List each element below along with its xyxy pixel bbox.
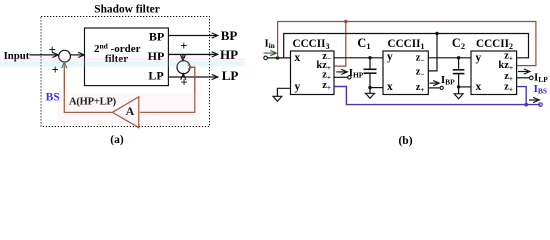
- wire input to summer S1: [30, 54, 57, 56]
- wire z+ U3 to IHP terminal: [334, 76, 348, 78]
- arrowhead BP: [212, 33, 218, 38]
- node BS bus: [524, 103, 528, 107]
- wire LP branch up to summer S2: [182, 76, 184, 78]
- arrowhead S2 output (red): [188, 65, 192, 70]
- wire z- U3 to y U1: [334, 57, 383, 59]
- red feedback rail: [278, 22, 536, 66]
- wire ground node to x U2: [459, 86, 471, 88]
- IBP terminal: [440, 86, 443, 89]
- IBS terminal: [539, 103, 543, 107]
- wire z+ U2 to BS bus (blue): [517, 87, 526, 105]
- wire LP out: [168, 76, 216, 78]
- IBP annotation arrow: [430, 82, 438, 84]
- node red rail junction: [276, 56, 279, 59]
- wire ground node to x U1: [370, 87, 383, 89]
- svg-text:x: x: [476, 81, 482, 93]
- jpeg pink band artifact: [0, 58, 245, 60]
- svg-text:BP: BP: [221, 28, 238, 43]
- svg-text:Shadow filter: Shadow filter: [94, 4, 160, 16]
- arrowhead LP: [212, 74, 218, 79]
- svg-text:x: x: [295, 52, 301, 64]
- CCCII3 box U3: [291, 51, 335, 95]
- wire z- U1 to y U2: [428, 57, 471, 59]
- summer S1: [59, 50, 71, 62]
- ground U3: [273, 96, 282, 101]
- svg-text:BP: BP: [149, 30, 164, 44]
- node on red rail: [344, 20, 347, 23]
- black drop to z- mid of U1 (wire): [428, 34, 437, 71]
- wire y U3 to ground: [277, 88, 290, 96]
- arrowhead into S1 bottom (green tint): [62, 62, 67, 68]
- CCCII2 box U2: [471, 51, 517, 95]
- svg-text:+: +: [49, 43, 56, 57]
- wire z+ U3 to BS bus (blue): [334, 87, 541, 105]
- summer S2: [177, 61, 190, 74]
- wire S1 to filter box: [71, 54, 83, 56]
- svg-text:+: +: [180, 39, 187, 53]
- IBS annotation arrow: [529, 99, 537, 101]
- CCCII1 box U1: [383, 51, 428, 95]
- arrowhead into S2 top: [180, 55, 185, 61]
- ILP annotation arrow: [518, 71, 528, 73]
- wire z+ U1 to IBP terminal: [428, 87, 440, 89]
- node C2 top: [457, 56, 460, 59]
- svg-text:LP: LP: [222, 68, 239, 83]
- wire A output to S1 (red): [64, 65, 112, 113]
- capacitor C1: [369, 58, 371, 70]
- red drop to kz+ of U3 (wire): [334, 22, 346, 67]
- arrowhead HP: [212, 52, 218, 57]
- IHP annotation arrow: [336, 71, 345, 73]
- svg-text:x: x: [387, 81, 393, 93]
- svg-text:CCCII3: CCCII3: [293, 38, 330, 51]
- wire BP out: [168, 35, 216, 37]
- arrowhead into S1: [52, 52, 58, 57]
- svg-text:CCCII1: CCCII1: [388, 38, 425, 51]
- svg-text:BS: BS: [46, 91, 60, 103]
- wire kz+ U2 to ILP terminal: [517, 77, 530, 79]
- node C2 bottom / x U2: [457, 85, 460, 88]
- wire HP branch down to summer S2: [182, 54, 184, 58]
- svg-text:y: y: [387, 51, 393, 63]
- wire HP out: [168, 53, 216, 55]
- svg-text:(a): (a): [110, 134, 124, 146]
- ground C1: [366, 93, 375, 98]
- IHP terminal: [348, 76, 351, 79]
- black feedback rail: [284, 34, 529, 58]
- svg-text:y: y: [476, 52, 482, 64]
- input terminal: [264, 56, 268, 60]
- svg-text:LP: LP: [148, 69, 163, 83]
- svg-text:CCCII2: CCCII2: [476, 38, 513, 51]
- ground C2: [454, 94, 463, 99]
- node C1 top: [368, 56, 371, 59]
- wire S2 output (red): [140, 67, 195, 112]
- capacitor C2: [458, 58, 460, 70]
- node on black rail: [435, 32, 438, 35]
- dashed enclosure: [41, 17, 210, 127]
- filter box U1: [85, 28, 169, 86]
- arrowhead into filter box: [78, 52, 84, 57]
- amplifier A: [112, 97, 138, 128]
- ILP terminal: [530, 76, 534, 80]
- wire input to x of U3: [267, 57, 290, 59]
- svg-text:(b): (b): [398, 135, 412, 147]
- jpeg pink wash around feedback loop: [58, 93, 200, 126]
- arrow Iin annotation: [264, 52, 276, 54]
- jpeg cyan band artifact: [0, 61, 245, 67]
- node C1 bottom / x U1: [368, 86, 371, 89]
- svg-text:y: y: [295, 81, 301, 93]
- arrowhead into S2 bottom: [181, 74, 186, 80]
